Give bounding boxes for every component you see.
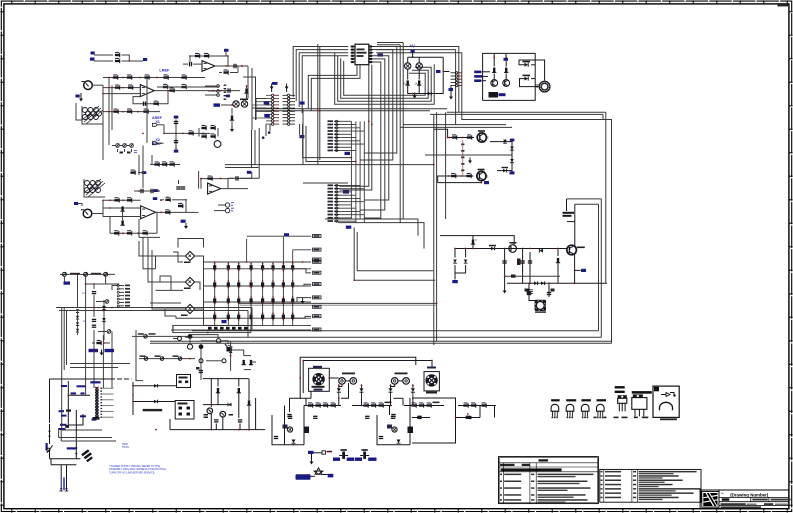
navy blob near ticks (226, 95, 230, 98)
small resistor network (96, 340, 101, 345)
transistor Q1 (493, 74, 495, 80)
svg-text:K: K (476, 238, 478, 242)
opto box 1 (177, 375, 191, 388)
lower resistor row y111.6 (103, 111, 160, 113)
left long verticals channel area (138, 155, 140, 175)
right loop verticals (605, 112, 607, 283)
center loop verticals (433, 114, 435, 345)
U3 port above (224, 49, 229, 52)
wire into Q4 stage (434, 129, 448, 137)
mid vertical caps (504, 249, 506, 288)
U3 output (215, 65, 248, 67)
svg-text:E: E (486, 175, 488, 179)
net blob right (443, 71, 449, 73)
wire below header (450, 86, 452, 94)
gnd arrow mid block (468, 158, 472, 164)
driver main wire (455, 248, 568, 250)
cap pair lower (92, 319, 96, 321)
opamp U2 output wire (154, 90, 240, 92)
rotary SW2 frame (84, 179, 105, 197)
speaker connector circular J5 (529, 297, 541, 301)
opamp input wires (103, 87, 140, 89)
rotary switch SW2 (85, 181, 90, 186)
staircase lines lower (59, 437, 112, 439)
right amp subblock (377, 415, 410, 445)
filter transistors (188, 334, 193, 339)
resistor row far right cluster (458, 405, 496, 407)
U4 feedback caps above (134, 190, 160, 192)
svg-text:+V: +V (410, 44, 415, 49)
gnd arrow in matrix (301, 298, 305, 304)
package TO-247 outline (632, 391, 652, 394)
resistor R5 (452, 134, 457, 139)
switch row lower marks (120, 152, 124, 154)
IC U1 right pins (369, 46, 374, 48)
relay block outer rectangle (483, 53, 536, 100)
jumper top row left bank (60, 273, 115, 275)
wires from connector left column to left (256, 99, 266, 121)
far right small parts ch1 (244, 88, 248, 93)
small connector left bank (120, 285, 125, 287)
zener with ports bottom (315, 468, 322, 474)
resistor R11 (115, 58, 120, 63)
switch circle lower (107, 330, 111, 334)
coupling caps vertical pair (163, 125, 165, 134)
resistor row left cluster (304, 405, 341, 407)
regulator right network (203, 378, 249, 380)
tick column small caps (224, 85, 227, 86)
transistor Q8 (214, 141, 221, 148)
channel2 input jack J2 (83, 209, 92, 218)
resistor R6 (467, 134, 472, 139)
bus wires left of U1 (293, 47, 348, 98)
right big rect loop (412, 398, 456, 443)
U5 feedback loop (201, 179, 228, 189)
jumper SW row2 (139, 358, 195, 360)
package TO-92 outline Q1 with label (551, 399, 560, 401)
zone tick marks (11, 0, 13, 4)
speaker connector J7 circular (312, 373, 324, 385)
sheet number smudge top-right (778, 5, 789, 7)
U5 output (221, 188, 248, 190)
svg-text:TURN OFF AC LINE BEFORE SERVIC: TURN OFF AC LINE BEFORE SERVICE. (109, 471, 156, 474)
U4 bottom resistor row (110, 232, 157, 234)
motor M1 circular (539, 81, 550, 92)
matrix output port labels (313, 235, 322, 238)
left vertical drop wires (302, 109, 304, 165)
package TO-92 outline Q4 with label (597, 399, 607, 401)
net port blob on top wire (504, 58, 509, 61)
transistor Q5 big (438, 176, 446, 183)
diodes below jacks (337, 388, 341, 392)
bridge diamond B3 (185, 304, 194, 313)
channel2 misc verticals (198, 171, 200, 189)
gnd below jack J1 (80, 93, 82, 97)
resistor R2 vertical (418, 69, 420, 79)
cap on J6 left wire (65, 425, 69, 428)
long wire through K block mid (425, 154, 512, 156)
feedback loop cap below (133, 91, 168, 104)
resistor R8 vertical right (557, 249, 559, 257)
notes right column dividers (603, 469, 605, 502)
cap C-left vertical (92, 292, 96, 294)
amp block cluster right (201, 125, 206, 130)
notes rows text smudges (504, 474, 521, 476)
horizontal wire y283 with diodes (507, 282, 607, 284)
+V wire down (412, 53, 414, 57)
svg-text:(Drawing Number): (Drawing Number) (730, 492, 769, 497)
notes right rows text smudges (605, 471, 621, 473)
left stack verticals (251, 68, 253, 130)
regulator top loop wires (300, 357, 416, 399)
transistor Q2 (505, 74, 507, 80)
tall vertical pair center (317, 44, 319, 165)
jumper mid (178, 337, 182, 341)
port and arrow below (308, 451, 314, 454)
wires from U3 region to left column stack (247, 66, 249, 99)
wires to motor (519, 60, 545, 81)
matrix column wires (214, 262, 216, 326)
X2 port arrow (153, 142, 158, 145)
logo box (702, 492, 719, 508)
diode pair verticals top (103, 300, 105, 340)
file row smudge (721, 506, 762, 508)
J6 bottom staircase (68, 414, 83, 425)
regulator bottom parts (214, 420, 218, 422)
regulator diode pair left (132, 382, 134, 415)
diamond connection frames (178, 239, 204, 248)
connector J3 dual pin columns (271, 94, 273, 96)
heatsink bracket outline (653, 386, 679, 417)
pin array P2 bus connections (340, 184, 361, 186)
regulator bottom rail (170, 429, 265, 431)
HEATSINK PWR navy label (67, 447, 76, 449)
Q7 emitter down to net (574, 255, 576, 284)
matrix drive mid horizontals (156, 289, 184, 291)
op-amp U4 (141, 206, 156, 219)
center vertical to xfmr (75, 410, 77, 459)
speaker connector J8 bracket (424, 372, 439, 391)
mid link wires (341, 383, 349, 398)
jack pair JP2 (395, 373, 408, 375)
resistor row mid cluster (352, 405, 392, 407)
channel1 input network verticals (102, 85, 104, 160)
matrix bottom label band (208, 327, 212, 330)
switch circle mid (105, 300, 109, 304)
channel2 wires and resistors (103, 199, 141, 201)
via dots below connector (262, 136, 265, 139)
resistor R7 vertical (471, 239, 475, 244)
J6 left wires and labels (67, 381, 69, 420)
bottom caps row (288, 416, 292, 418)
transistor Q6 small (509, 245, 517, 253)
bus verticals left of K block (402, 43, 404, 220)
U3 feedback resistors above (190, 55, 228, 57)
net labels left of connector (264, 101, 270, 104)
op-amp U3 (202, 61, 215, 72)
resistor R1 vertical (407, 69, 409, 79)
matrix diodes (213, 265, 216, 269)
net label right of connector (300, 102, 305, 105)
vertical resistor with gnd right (231, 108, 233, 115)
gnd tick left of motor (535, 85, 539, 88)
bus pair into K block (403, 124, 506, 126)
matrix row wires (204, 261, 312, 263)
J8 labels (427, 367, 436, 369)
U4 vertical resistors left (120, 206, 124, 211)
net label AGND blob (272, 82, 278, 85)
left bank verticals (85, 274, 87, 350)
diode D3 on bottom wire (428, 92, 432, 96)
J6 right gray stubs (102, 387, 114, 389)
feedback resistor row y77.5 (103, 77, 205, 79)
long wire mid-left to right (225, 164, 434, 166)
nested loop U-shapes below U1 (335, 53, 435, 105)
horizontal wire y276 (505, 275, 560, 277)
mid network channel2 (165, 197, 170, 202)
transformer hatch (81, 449, 93, 462)
pin array P1 upper (328, 120, 334, 122)
gnd bars pair (89, 349, 99, 352)
J7 labels (313, 366, 322, 368)
diode D7 arrow (540, 249, 543, 253)
output port blob (143, 58, 147, 61)
resistor R10 (115, 52, 120, 57)
svg-text:TRAN: TRAN (122, 446, 129, 449)
notes table left outline (499, 457, 599, 504)
resistor row mid (150, 164, 180, 166)
power connector J6 frame loop (50, 378, 116, 380)
svg-text:Title: Title (721, 492, 726, 495)
title block outline (700, 490, 789, 509)
transistor Q3 dark body (489, 92, 499, 98)
date row smudges (721, 503, 746, 505)
capacitor chain vertical (461, 144, 464, 146)
opto box 2 (175, 401, 194, 420)
X1 port arrow (153, 123, 158, 126)
transistor Q4 big (477, 133, 486, 142)
filter top loop (190, 335, 218, 339)
diode D4 right top (531, 64, 535, 66)
IC U1 body (355, 44, 369, 64)
bridge diamond B2 (185, 277, 194, 286)
net labels near pin array P2 (343, 190, 349, 193)
left amp subblock (272, 415, 304, 445)
svg-text:x1: x1 (82, 291, 85, 295)
net label blobs left of relay block (474, 71, 481, 74)
amp block link wires (290, 397, 312, 399)
mid nested rect loops (354, 228, 435, 281)
U3 input cap (190, 62, 192, 66)
FET diagonal (225, 344, 232, 353)
matrix drive wires from channels (143, 237, 156, 268)
right loop bottoms (192, 330, 599, 332)
bottom AC drop wires (51, 464, 76, 466)
package TO-220 outline with tab (615, 386, 625, 388)
speaker connector J8 circular (425, 374, 437, 386)
package TO-92 outline Q3 with label (581, 399, 591, 401)
size field smudge (722, 498, 730, 501)
slide switches row (116, 144, 120, 148)
jack pair riser wires (339, 384, 342, 386)
junction dots scattered (128, 60, 130, 62)
caps to speaker connector (528, 283, 530, 297)
resistor row right cluster (404, 405, 444, 407)
input ports and series resistors top-left (91, 52, 95, 55)
notes table column dividers (502, 463, 504, 504)
notes table header (499, 462, 599, 464)
left dual diodes (454, 249, 456, 258)
bottom rail to transformer (50, 458, 81, 460)
regulator transistor QA (207, 408, 213, 414)
output jacks small circles (225, 203, 229, 207)
gnd arrow below driver (503, 288, 507, 294)
U4 output wire (156, 211, 190, 213)
vertical blue label between AC wires (63, 478, 65, 491)
transistor Q7 big output (567, 245, 577, 255)
svg-text:E: E (487, 136, 489, 140)
rotary switch SW1 (83, 108, 88, 113)
left bank bottom verticals (85, 350, 87, 395)
LED D2 (418, 57, 420, 62)
+V port blob (411, 50, 415, 53)
LED D1 (407, 57, 409, 62)
svg-text:LREF: LREF (159, 68, 170, 72)
net label blob right of U1 (378, 53, 384, 56)
bottom wire of Q5 with navy blob (438, 181, 482, 183)
resistor R3 vertical in relay block (493, 53, 495, 66)
driver top wire (440, 236, 514, 245)
ground arrow above connector (271, 89, 273, 93)
resistor R4 vertical in relay block (505, 61, 507, 67)
crystal symbols with navy pads (339, 455, 342, 457)
wires from blobs to relay block (482, 71, 491, 73)
notes header dark row (501, 468, 562, 471)
port top channel2 (142, 171, 147, 174)
SETUP blue label (90, 381, 100, 383)
net label below pin array P1 (345, 152, 351, 155)
matrix row to port connections (262, 269, 311, 273)
connector bottom drops (265, 124, 267, 136)
company logo Z glyph (703, 493, 717, 506)
channel1 right pair transistors (214, 103, 221, 106)
cap pair right loop (244, 355, 251, 357)
package TO-92 outline Q2 with label (566, 399, 576, 401)
vertical wires below connector to blob (299, 124, 301, 135)
filter vertical chain (200, 349, 202, 380)
port blob left edge (74, 202, 78, 205)
jumper SW row1 (139, 335, 190, 337)
right loop upper corners (567, 198, 602, 200)
op-amp U2 channel1 (140, 85, 154, 97)
IC U1 left pins (351, 46, 356, 48)
matrix top wires and blob (247, 235, 311, 237)
speaker connector J7 bracket (309, 368, 330, 391)
ground arrow 2 above connector (286, 89, 288, 93)
filter bottom wires (136, 330, 143, 381)
+V rect top wire (408, 56, 444, 58)
mid wire to amp block (164, 132, 211, 134)
left bank tall frame wires (61, 308, 63, 431)
op-amp U5 right (208, 183, 221, 194)
pin array P2 lower (328, 184, 334, 186)
regulator sub wires (70, 363, 130, 365)
power connector J6 pin column (95, 387, 98, 390)
U3 lower parts (223, 69, 228, 74)
jack pair JP1 (342, 373, 355, 375)
diode D6 on wire (491, 247, 495, 251)
right column diode string (510, 139, 515, 142)
input jack J1 circle (84, 81, 93, 90)
diode chain vertical left (77, 274, 79, 308)
bus wires from U1 bottom staircase (308, 65, 357, 109)
notes table right outline (600, 469, 701, 502)
matrix bottom wires (204, 325, 312, 327)
pin array P1 bus connections (340, 120, 352, 122)
diode D5 right lower (531, 78, 535, 80)
part number text HS1 (563, 212, 575, 214)
long horizontal pair mid sheet (255, 108, 447, 110)
pin header small J4 (456, 72, 458, 74)
filter right parts (222, 359, 226, 363)
regulator transistor QB (220, 411, 226, 417)
power switch SW bottom left (49, 424, 51, 444)
right loop components (418, 416, 422, 420)
title block divider lines (718, 490, 720, 509)
chip right pin L-drops (364, 47, 397, 154)
open pin circles left (205, 85, 217, 87)
bus wires right of U1 going right and down (376, 47, 459, 113)
bottom wire with diode (408, 57, 444, 93)
gnd arrow below +V circuit (413, 93, 417, 99)
bridge diamond B1 (185, 251, 194, 260)
net blob below (64, 282, 71, 285)
lower right wire with diode (497, 170, 512, 172)
rotary SW1 frame (82, 106, 103, 124)
verticals from U1 right pins down to lower pin field (340, 65, 369, 187)
right loop horizontals top (447, 111, 606, 113)
